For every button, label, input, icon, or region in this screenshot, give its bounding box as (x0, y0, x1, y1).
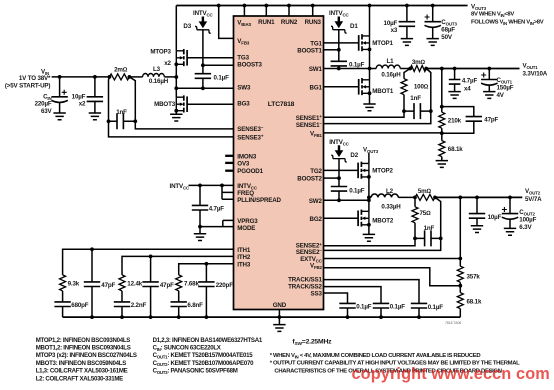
svg-text:8V WHEN VIN<8V: 8V WHEN VIN<8V (471, 12, 514, 18)
transistor MBOT1 (369, 69, 371, 105)
wire 2mOhm sense loop left (108, 77, 111, 121)
svg-text:SENSE3+: SENSE3+ (237, 134, 264, 142)
wire IMON3 stub (225, 155, 233, 157)
wire ITH3 (179, 264, 234, 275)
resistor 7.68k (176, 275, 182, 291)
svg-text:220pF: 220pF (216, 282, 234, 289)
svg-text:RUN3: RUN3 (305, 19, 322, 26)
node 1nF left ch3 (107, 119, 111, 123)
wire BOOST2 pin (324, 177, 340, 179)
svg-text:MBOT2: MBOT2 (372, 217, 394, 224)
transistor MTOP3 (175, 6, 177, 78)
wire D2 cathode to BOOST2 (338, 159, 340, 179)
capacitor 1nF sense ch2 (425, 230, 431, 246)
svg-text:TRACK/SS2: TRACK/SS2 (288, 283, 322, 290)
svg-text:1V TO 38V*: 1V TO 38V* (19, 75, 51, 82)
svg-text:x4: x4 (464, 85, 471, 92)
svg-text:BOOST3: BOOST3 (237, 62, 262, 69)
capacitor 220pF ITH3 (205, 264, 207, 317)
svg-text:ITH3: ITH3 (237, 261, 251, 268)
svg-text:(>5V START-UP): (>5V START-UP) (5, 83, 50, 90)
svg-text:SENSE1–: SENSE1– (296, 121, 323, 129)
wire SW3 pin (176, 87, 233, 89)
capacitor 2.2nF (121, 291, 123, 317)
svg-text:150µF: 150µF (497, 85, 514, 92)
wire ITH2 (122, 256, 234, 275)
svg-text:BG2: BG2 (310, 216, 323, 223)
inductor L1 0.16uH (370, 68, 411, 70)
svg-text:L3: L3 (153, 66, 161, 73)
svg-text:4V: 4V (497, 92, 505, 99)
svg-text:BG3: BG3 (237, 101, 250, 108)
svg-text:D2: D2 (350, 152, 358, 159)
svg-text:MBOT3: MBOT3 (154, 101, 176, 108)
wire TG3 (187, 57, 233, 59)
capacitor COUT1 150uF 4V (487, 67, 491, 71)
svg-text:L1,3: COILCRAFT XAL5030-161ME: L1,3: COILCRAFT XAL5030-161ME (36, 368, 128, 375)
ground INTVCC cap (194, 234, 206, 241)
capacitor 47pF ITH1 (91, 249, 93, 317)
wire FREQ PLLIN bracket (222, 185, 234, 199)
inductor L2 0.33uH (369, 196, 415, 198)
wire BG1 pin (324, 86, 359, 88)
svg-text:SW2: SW2 (309, 198, 323, 205)
wire RUN3 pin stub (312, 6, 314, 17)
wire TRACK/SS1 (324, 280, 420, 304)
diode D2 (338, 145, 340, 150)
IC U1 LTC7818 body (234, 16, 324, 310)
svg-text:47pF: 47pF (160, 282, 174, 289)
svg-text:BOOST2: BOOST2 (297, 176, 322, 183)
svg-text:5mΩ: 5mΩ (418, 188, 432, 195)
svg-text:PGOOD1: PGOOD1 (237, 168, 263, 175)
svg-text:0.1µF: 0.1µF (356, 303, 372, 310)
wire SENSE1+ (324, 111, 405, 117)
capacitor 0.1uF boost ch1 (338, 50, 340, 69)
transistor MBOT2 (358, 210, 369, 227)
capacitor 6.8nF (178, 291, 180, 317)
capacitor 0.1uF SS1 (411, 303, 427, 308)
wire SW3 vertical (175, 77, 177, 97)
svg-text:BOOST1: BOOST1 (297, 48, 322, 55)
svg-text:MTOP1: MTOP1 (372, 40, 393, 47)
resistor 210k (439, 112, 445, 128)
capacitor 0.1uF boost ch3 (202, 65, 204, 88)
svg-text:copyright www.eccn com: copyright www.eccn com (352, 365, 550, 383)
node SW3 junction L3 (174, 75, 178, 79)
svg-text:RUN1: RUN1 (258, 19, 275, 26)
svg-text:D3: D3 (183, 23, 191, 30)
resistor 2mOhm input sense (109, 74, 129, 80)
wire SENSE3- (135, 121, 233, 129)
transistor MTOP2 (368, 153, 370, 211)
svg-text:4.7µF: 4.7µF (462, 78, 478, 85)
svg-text:10µF: 10µF (72, 93, 86, 100)
svg-text:x3: x3 (391, 27, 398, 34)
svg-text:0.1µF: 0.1µF (349, 61, 365, 68)
ground 68.1k ch1 (436, 161, 448, 168)
resistor 357k (457, 266, 463, 282)
wire VOUT2 divider drop (459, 197, 461, 317)
node 1nF right ch3 (133, 119, 137, 123)
wire RUN2 pin stub (288, 6, 290, 17)
svg-text:3mΩ: 3mΩ (412, 59, 426, 66)
svg-text:TG2: TG2 (310, 168, 322, 175)
wire D1 cathode to BOOST1 (338, 30, 340, 50)
svg-text:MBOT1,2: INFINEON BSC093N04LS: MBOT1,2: INFINEON BSC093N04LS (36, 345, 131, 352)
wire TG2 pin (324, 169, 359, 171)
svg-text:50V: 50V (441, 34, 453, 41)
svg-text:12.4k: 12.4k (127, 281, 142, 288)
resistor 3mOhm sense ch1 (410, 66, 426, 72)
wire bottom ground rail (63, 316, 461, 318)
svg-text:RUN2: RUN2 (281, 19, 298, 26)
wire VFB3 to VOUT3 rail (219, 6, 234, 39)
ground GND symbol (278, 317, 280, 325)
svg-text:4.7µF: 4.7µF (209, 205, 225, 212)
svg-text:10µF: 10µF (384, 20, 398, 27)
svg-text:220µF: 220µF (35, 101, 52, 108)
wire 3mOhm right to 1nF (426, 69, 431, 112)
svg-text:0.1µF: 0.1µF (214, 74, 230, 81)
wire SENSE1- (324, 111, 431, 124)
svg-text:63V: 63V (41, 108, 53, 115)
capacitor CIN 220uF 63V (58, 75, 62, 79)
capacitor 4.7uF x4 VOUT1 (453, 67, 457, 71)
svg-text:MTOP3: MTOP3 (150, 49, 171, 56)
wire 5mOhm right to 1nF ch2 (435, 197, 441, 238)
wire GND pin to rail (278, 310, 280, 318)
svg-text:3.3V/10A: 3.3V/10A (523, 71, 548, 78)
wire VFB1 (324, 132, 442, 134)
svg-text:MBOT3: INFINEON BSC059N04LS: MBOT3: INFINEON BSC059N04LS (36, 360, 127, 367)
svg-text:L2: COILCRAFT XAL5030-331ME: L2: COILCRAFT XAL5030-331ME (36, 375, 123, 382)
svg-text:OV3: OV3 (237, 160, 250, 167)
wire SENSE3+ (109, 121, 234, 137)
wire ITH1 (63, 249, 234, 275)
svg-text:10µF: 10µF (488, 214, 502, 221)
wire RUN1 pin stub (265, 6, 267, 17)
svg-text:x2: x2 (164, 60, 171, 67)
wire VOUT2 rail (435, 196, 522, 198)
capacitor 47pF feedback ch1 (442, 107, 474, 134)
resistor 12.4k (119, 275, 125, 291)
node 2mOhm right (127, 75, 131, 79)
svg-text:0.1µF: 0.1µF (390, 303, 406, 310)
svg-text:SW1: SW1 (309, 66, 323, 73)
svg-text:9.3k: 9.3k (68, 281, 80, 288)
wire top VOUT3 rail (176, 5, 467, 7)
svg-text:IMON3: IMON3 (237, 153, 257, 160)
svg-text:COUT1: KEMET T520B157M004ATE01: COUT1: KEMET T520B157M004ATE015 (153, 352, 254, 359)
svg-text:1nF: 1nF (424, 225, 435, 232)
capacitor 1nF sense filter ch3 (117, 113, 123, 129)
svg-text:MTOP3 (x2): INFINEON BSC027N04: MTOP3 (x2): INFINEON BSC027N04LS (36, 352, 137, 359)
wire L3 to SW3 node (164, 76, 176, 78)
svg-text:68.1k: 68.1k (467, 299, 482, 306)
wire 2mOhm sense loop right (129, 77, 135, 121)
resistor 100 Ohm sense filter ch1 (404, 69, 410, 112)
capacitor 10uF VOUT2 (475, 196, 479, 200)
svg-text:1nF: 1nF (410, 95, 421, 102)
svg-text:1nF: 1nF (116, 109, 127, 116)
svg-text:680pF: 680pF (71, 302, 89, 309)
svg-text:MODE: MODE (237, 225, 255, 232)
svg-text:0.16µH: 0.16µH (381, 72, 401, 79)
svg-text:2mΩ: 2mΩ (114, 67, 128, 74)
wire PGOOD1 stub (225, 170, 233, 172)
resistor 68.1k ch2 (457, 293, 463, 309)
svg-text:0.1µF: 0.1µF (428, 304, 444, 311)
svg-text:GND: GND (273, 302, 287, 309)
wire EXTVCC pin (324, 258, 461, 260)
svg-text:ITH2: ITH2 (237, 254, 251, 261)
svg-text:47pF: 47pF (101, 282, 115, 289)
wire TG1 pin (324, 42, 359, 44)
wire SS3 (324, 293, 348, 303)
wire VOUT1 rail (426, 68, 519, 70)
svg-text:68µF: 68µF (441, 27, 455, 34)
resistor 9.3k (60, 275, 66, 291)
svg-text:210k: 210k (448, 118, 462, 125)
ground MBOT3 source (170, 114, 182, 121)
svg-text:6.3V: 6.3V (519, 224, 532, 231)
transistor MBOT3 (176, 95, 187, 112)
resistor 68.1k ch1 (441, 133, 443, 160)
svg-text:LTC7818: LTC7818 (268, 101, 295, 108)
svg-text:0.16µH: 0.16µH (149, 78, 169, 85)
wire VIN rail (52, 76, 110, 78)
svg-text:D1,2,3: INFINEON BAS140WE6327H: D1,2,3: INFINEON BAS140WE6327HTSA1 (153, 337, 263, 344)
svg-text:47pF: 47pF (484, 116, 498, 123)
svg-text:D1: D1 (350, 23, 358, 30)
capacitor 10uF x2 input (93, 75, 97, 79)
wire 2mOhm to L3 (129, 76, 142, 78)
wire SENSE2+ (324, 238, 416, 245)
svg-text:VPRG3: VPRG3 (237, 218, 258, 225)
wire SENSE2- (324, 238, 441, 250)
svg-text:SS3: SS3 (311, 290, 323, 297)
node junction VFB3 drop on rail (217, 4, 221, 8)
svg-text:75Ω: 75Ω (420, 210, 432, 217)
wire VOUT1 divider drop (441, 69, 443, 134)
svg-text:PLLIN/SPREAD: PLLIN/SPREAD (237, 197, 281, 204)
svg-text:MTOP2: MTOP2 (372, 168, 393, 175)
resistor 75 Ohm sense filter ch2 (414, 197, 416, 238)
diode D3 (202, 17, 204, 22)
svg-text:357k: 357k (467, 274, 481, 281)
capacitor 4.7uF INTVCC (199, 185, 201, 233)
capacitor 680pF (62, 291, 64, 317)
capacitor COUT3 68uF 50V (431, 4, 435, 8)
svg-text:MTOP1,2: INFINEON BSC093N04LS: MTOP1,2: INFINEON BSC093N04LS (36, 337, 131, 344)
capacitor COUT2 100uF 6.3V (508, 196, 512, 200)
svg-text:100µF: 100µF (519, 216, 536, 223)
svg-text:CIN: SUNCON 63CE220LX: CIN: SUNCON 63CE220LX (153, 345, 222, 352)
wire BOOST1 pin (324, 49, 339, 51)
svg-text:100Ω: 100Ω (414, 83, 429, 90)
capacitor 47pF ITH2 (150, 256, 152, 317)
node 2mOhm left (108, 75, 112, 79)
capacitor 0.1uF SS2 (373, 303, 389, 308)
capacitor 0.1uF boost ch2 (338, 178, 340, 200)
wire VFB2 (324, 268, 461, 286)
svg-text:COUT2: KEMET T520B107M006APE07: COUT2: KEMET T520B107M006APE070 (153, 360, 254, 367)
resistor 5mOhm sense ch2 (415, 194, 435, 200)
svg-text:L1: L1 (387, 58, 395, 65)
svg-text:* WHEN VIN < 4V, MAXIMUM COMBI: * WHEN VIN < 4V, MAXIMUM COMBINED LOAD C… (270, 353, 481, 359)
svg-text:L2: L2 (386, 188, 394, 195)
svg-text:TRACK/SS1: TRACK/SS1 (288, 276, 322, 283)
svg-text:x2: x2 (79, 101, 86, 108)
svg-text:FOLLOWS VIN WHEN VIN>8V: FOLLOWS VIN WHEN VIN>8V (471, 20, 544, 26)
transistor MTOP1 (369, 6, 371, 69)
svg-text:MBOT1: MBOT1 (372, 88, 394, 95)
wire VPRG3 MODE tie (200, 220, 234, 226)
svg-text:TG3: TG3 (237, 55, 249, 62)
svg-text:0.33µH: 0.33µH (381, 203, 401, 210)
wire BG2 pin (324, 217, 359, 219)
wire BG3 (187, 103, 233, 105)
wire OV3 stub (225, 162, 233, 164)
svg-text:2.2nF: 2.2nF (131, 302, 147, 309)
svg-text:BG1: BG1 (310, 84, 323, 91)
svg-text:TG1: TG1 (310, 40, 322, 47)
ground MBOT2 source (363, 234, 375, 241)
svg-text:7.68k: 7.68k (184, 281, 199, 288)
ground MBOT1 source (363, 104, 375, 111)
svg-text:6.8nF: 6.8nF (187, 302, 203, 309)
svg-text:SENSE2–: SENSE2– (296, 248, 323, 256)
inductor L3 0.16uH (143, 74, 165, 77)
node RUN1 on rail (264, 4, 268, 8)
svg-text:7818 TA06: 7818 TA06 (445, 321, 461, 325)
svg-text:0.1µF: 0.1µF (349, 187, 365, 194)
wire BOOST3 pin (203, 64, 234, 66)
wire TRACK/SS2 (324, 287, 382, 304)
capacitor 1nF sense ch1 (414, 103, 420, 119)
node RUN2 on rail (287, 4, 291, 8)
svg-text:ITH1: ITH1 (237, 247, 251, 254)
capacitor 10uF x3 VOUT3 (405, 4, 409, 8)
node VBIAS on rail (243, 4, 247, 8)
svg-text:68.1k: 68.1k (448, 146, 463, 153)
svg-text:5V/7A: 5V/7A (525, 196, 542, 203)
wire INTVCC pin (189, 184, 234, 186)
capacitor 0.1uF SS3 (339, 303, 355, 308)
wire SW1 pin (324, 68, 370, 70)
wire D3 cathode to BOOST3 (202, 30, 204, 66)
wire SW2 pin (324, 199, 369, 201)
node RUN3 on rail (311, 4, 315, 8)
svg-text:SENSE3–: SENSE3– (237, 125, 264, 133)
diode D1 (338, 17, 340, 22)
svg-text:SW3: SW3 (237, 85, 251, 92)
wire VBIAS pin stub (243, 6, 245, 17)
